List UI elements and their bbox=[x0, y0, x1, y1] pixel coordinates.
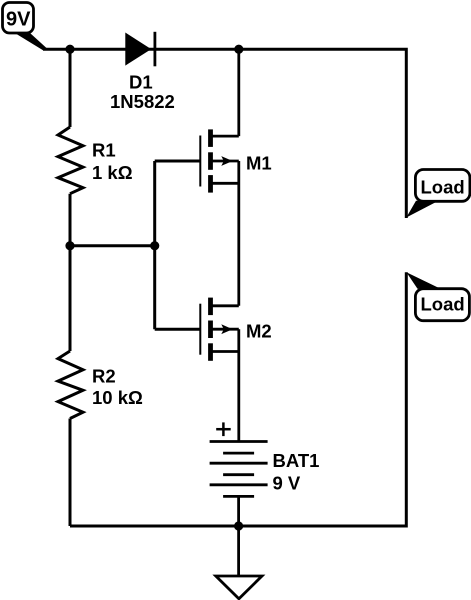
svg-text:10 kΩ: 10 kΩ bbox=[92, 387, 143, 408]
svg-text:1 kΩ: 1 kΩ bbox=[92, 162, 133, 183]
svg-text:9V: 9V bbox=[6, 9, 31, 31]
svg-text:9 V: 9 V bbox=[273, 473, 301, 494]
svg-text:Load: Load bbox=[421, 294, 465, 315]
svg-text:BAT1: BAT1 bbox=[273, 450, 320, 471]
svg-text:1N5822: 1N5822 bbox=[110, 91, 175, 112]
svg-text:D1: D1 bbox=[129, 72, 153, 93]
svg-text:Load: Load bbox=[421, 177, 465, 198]
svg-text:R1: R1 bbox=[92, 140, 116, 161]
svg-text:M2: M2 bbox=[246, 321, 272, 342]
svg-text:R2: R2 bbox=[92, 366, 116, 387]
svg-text:M1: M1 bbox=[246, 153, 272, 174]
